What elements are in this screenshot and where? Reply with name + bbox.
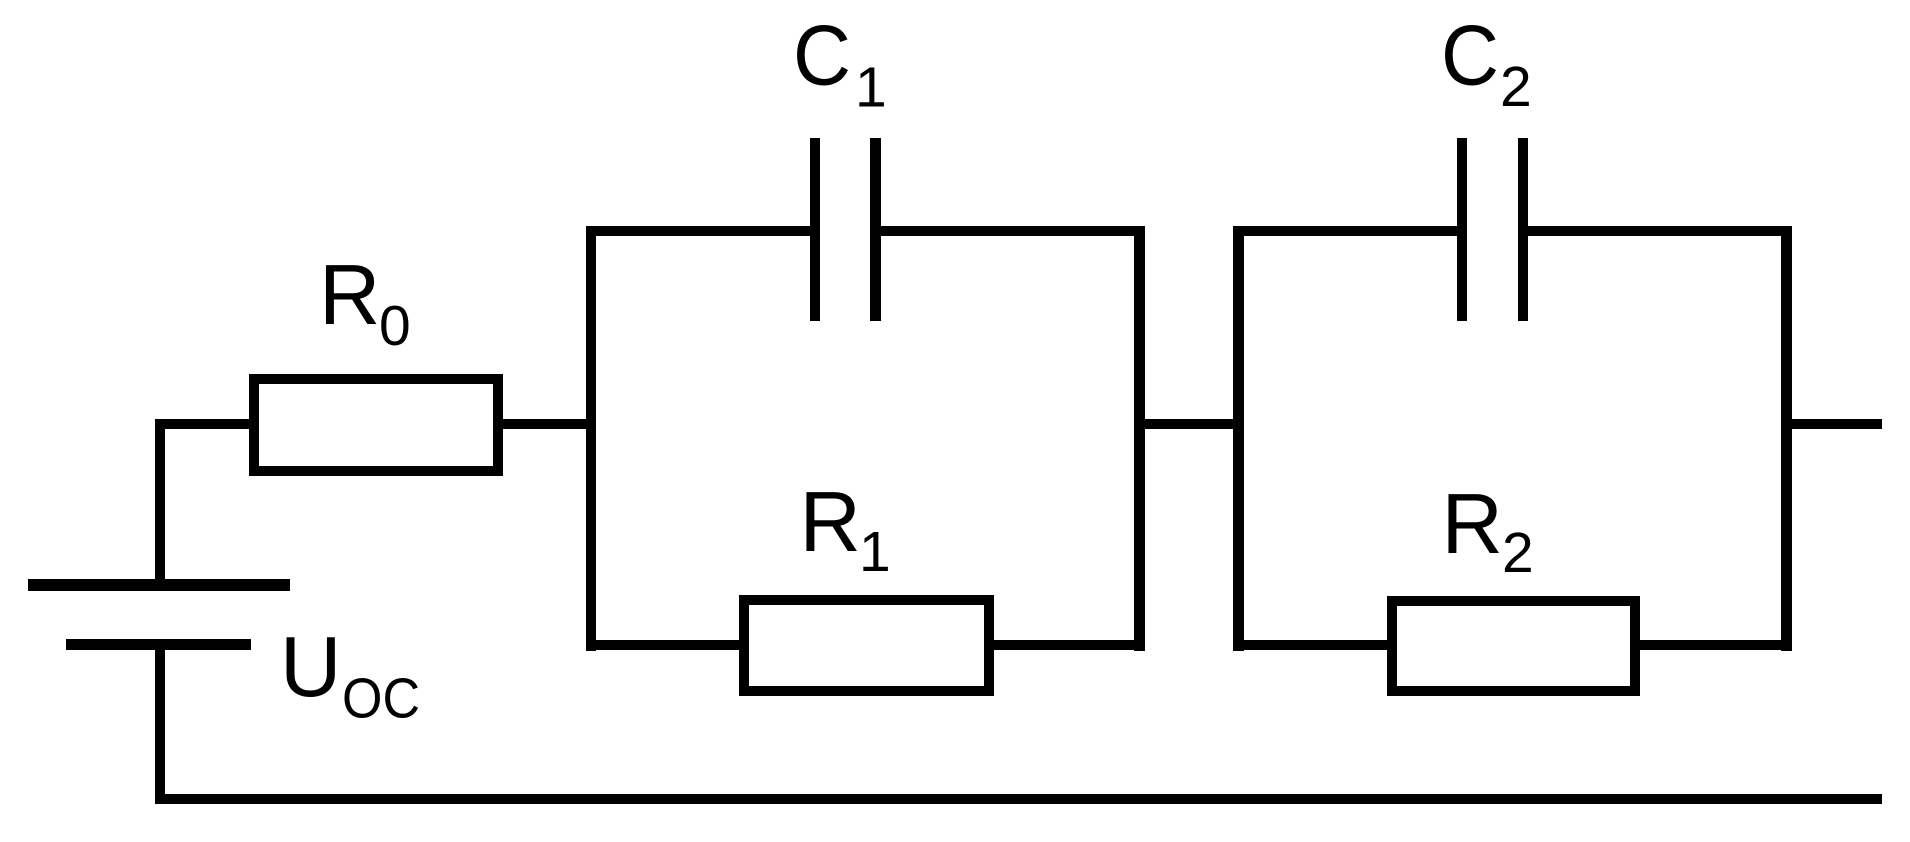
wire battery to R0 horizontal	[155, 419, 254, 429]
wire R0 to node A	[498, 419, 591, 429]
wire block2 right edge	[1781, 226, 1792, 651]
svg-text:C: C	[793, 9, 851, 104]
svg-text:C: C	[1441, 9, 1499, 104]
svg-text:1: 1	[855, 56, 887, 120]
wire output stub right	[1782, 419, 1882, 429]
wire bottom return	[155, 794, 1882, 804]
wire block1 top-left	[586, 226, 815, 236]
svg-text:R: R	[800, 475, 861, 570]
resistor R2	[1392, 601, 1635, 691]
wire block2 left edge	[1233, 226, 1244, 651]
capacitor C2	[1457, 138, 1528, 321]
svg-text:R: R	[319, 248, 380, 343]
label C2	[1441, 9, 1532, 120]
label C1	[793, 9, 887, 120]
svg-text:R: R	[1442, 477, 1503, 572]
wire node B between blocks	[1134, 419, 1243, 429]
node A: block1 left edge wire	[586, 226, 596, 651]
resistor R0	[254, 379, 498, 471]
wire block2 bottom-right	[1635, 640, 1792, 650]
resistor R1	[744, 600, 989, 691]
battery U_OC positive plate (long)	[28, 579, 290, 591]
svg-text:0: 0	[379, 294, 411, 358]
label R1	[800, 475, 891, 584]
label U_OC	[280, 620, 420, 731]
capacitor C1	[810, 138, 881, 321]
label R2	[1442, 477, 1534, 585]
wire battery positive terminal vertical	[155, 419, 165, 579]
wire block1 bottom-left	[586, 640, 744, 650]
svg-text:1: 1	[859, 520, 891, 584]
wire block2 top-right	[1523, 226, 1792, 236]
wire block1 bottom-right	[989, 640, 1145, 650]
svg-text:OC: OC	[342, 667, 420, 731]
wire block2 bottom-left	[1233, 640, 1392, 650]
svg-text:2: 2	[1502, 521, 1534, 585]
wire block1 top-right	[875, 226, 1145, 236]
wire block2 top-left	[1233, 226, 1462, 236]
battery U_OC negative plate (short)	[66, 639, 251, 650]
svg-text:U: U	[280, 620, 341, 715]
wire block1 right edge	[1134, 226, 1145, 651]
wire battery negative terminal vertical	[155, 650, 165, 804]
label R0	[319, 248, 411, 358]
svg-text:2: 2	[1500, 55, 1532, 119]
